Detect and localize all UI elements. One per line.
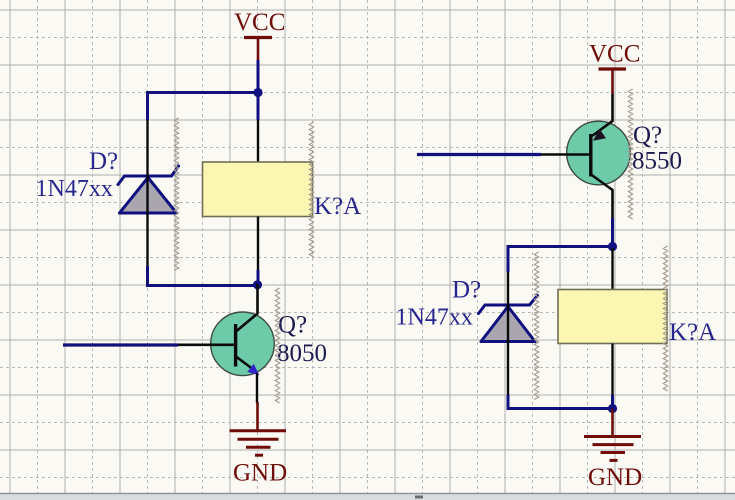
- zener diode D? (left) symbol: [118, 166, 179, 213]
- svg-text:Q?: Q?: [633, 122, 662, 149]
- power VCC left: bar symbol: [244, 36, 272, 61]
- svg-text:1N47xx: 1N47xx: [396, 305, 473, 331]
- artifact squiggle right of right diode: [534, 252, 538, 400]
- transistor Q1 base pin: [178, 343, 235, 346]
- relay coil K?A (left): [203, 162, 313, 217]
- power GND left: bars: [230, 431, 287, 456]
- svg-text:8050: 8050: [277, 340, 327, 367]
- svg-text:Q?: Q?: [278, 312, 307, 339]
- wire: base input (left): [63, 343, 178, 346]
- svg-text:VCC: VCC: [589, 41, 640, 68]
- svg-text:VCC: VCC: [234, 9, 285, 36]
- junction node C (right top): [608, 242, 617, 251]
- relay K?A coil pin top (left): [257, 120, 259, 163]
- bottom window edge band: [0, 493, 735, 500]
- transistor Q1 8050 body (left): [211, 312, 275, 376]
- transistor Q1 collector pin: [236, 284, 258, 332]
- wire: diode bottom corner to node D (right): [508, 395, 613, 409]
- wire: collector down to node C (right): [611, 218, 614, 248]
- diode D? pin wires (left, vertical black): [146, 120, 148, 266]
- wire: down to diode D? (right): [507, 245, 510, 272]
- wire: base input (right): [417, 153, 541, 156]
- transistor Q2 base bar: [589, 134, 592, 177]
- wire: diode bottom corner to node B (left): [148, 266, 259, 286]
- wire: relay bottom to node B (left): [257, 270, 260, 286]
- svg-text:K?A: K?A: [314, 193, 361, 220]
- transistor Q1 emitter pin down: [256, 373, 258, 403]
- relay K?A coil pin bottom (left): [257, 217, 259, 271]
- power VCC right: bar symbol: [599, 68, 627, 95]
- svg-text:K?A: K?A: [669, 319, 716, 346]
- transistor Q2 emitter segment inside: [592, 121, 613, 136]
- wire: down to diode D? (left): [146, 91, 149, 120]
- wire: node C to diode branch (right horizontal): [508, 245, 613, 248]
- power GND right: bars: [584, 437, 641, 461]
- transistor Q1 emitter with arrow: [236, 357, 252, 369]
- svg-text:D?: D?: [89, 148, 118, 175]
- relay K?A coil pin top (right): [611, 248, 613, 290]
- transistor Q2 8550 body (right): [567, 121, 631, 185]
- transistor Q2 emitter arrowhead (PNP, pointing at base bar): [593, 129, 606, 141]
- svg-text:GND: GND: [233, 460, 287, 487]
- wire: relay bottom to node D (right): [611, 395, 614, 409]
- transistor Q2 base pin: [541, 153, 590, 156]
- power GND right: stem: [611, 409, 614, 437]
- wire: node A to diode branch (left horizontal top): [148, 91, 259, 94]
- artifact squiggle right of right transistor: [628, 89, 632, 219]
- artifact squiggle right of left diode: [174, 118, 178, 271]
- zener diode D? (right) symbol: [479, 296, 538, 342]
- artifact squiggle right of right relay: [663, 246, 667, 391]
- relay K?A coil pin bottom (right): [611, 344, 613, 396]
- transistor Q1 base bar: [234, 324, 237, 367]
- svg-text:D?: D?: [452, 277, 481, 304]
- diode D? pin wires (right, vertical black): [507, 272, 509, 395]
- junction node A (left top): [253, 88, 262, 97]
- wire: VCC to node A (left): [257, 60, 260, 120]
- junction node B (left, collector node): [253, 280, 262, 289]
- junction node D (right bottom): [608, 404, 617, 413]
- artifact squiggle right of left transistor: [275, 288, 279, 403]
- artifact squiggle right of left relay: [309, 122, 313, 257]
- transistor Q2 emitter pin from VCC: [592, 94, 613, 136]
- transistor Q2 collector pin: [591, 175, 613, 219]
- svg-text:8550: 8550: [632, 148, 682, 175]
- relay coil K?A (right): [558, 290, 667, 344]
- power GND left: stem: [256, 402, 259, 430]
- transistor Q1 emitter arrowhead (blue): [247, 364, 259, 376]
- svg-text:GND: GND: [588, 464, 642, 491]
- svg-text:1N47xx: 1N47xx: [36, 176, 113, 202]
